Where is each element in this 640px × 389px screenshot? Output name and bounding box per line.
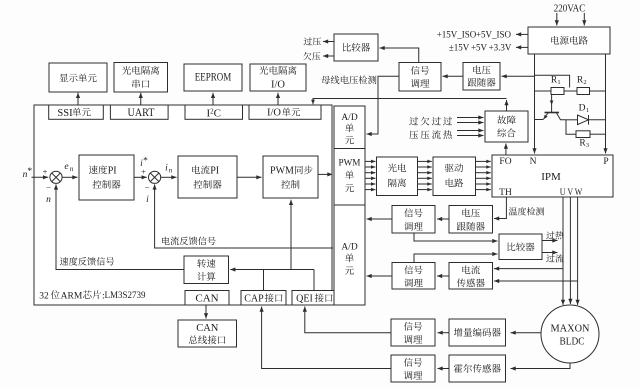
svg-text:A/D: A/D bbox=[341, 113, 358, 123]
svg-text:SSI: SSI bbox=[57, 108, 73, 119]
svg-text:−: − bbox=[145, 182, 150, 192]
svg-text:e: e bbox=[64, 162, 68, 172]
svg-text:32: 32 bbox=[39, 291, 49, 301]
svg-text:+3.3V: +3.3V bbox=[489, 43, 512, 53]
svg-text:U V W: U V W bbox=[560, 188, 583, 198]
svg-text:*: * bbox=[143, 156, 148, 166]
svg-text:n: n bbox=[70, 165, 74, 173]
svg-text:CAN: CAN bbox=[196, 323, 219, 334]
svg-text:IPM: IPM bbox=[541, 171, 561, 183]
svg-text:n: n bbox=[46, 195, 51, 205]
svg-text:−: − bbox=[46, 182, 51, 192]
svg-text:MAXON: MAXON bbox=[551, 324, 590, 335]
svg-text:+: + bbox=[141, 166, 146, 176]
svg-text:P: P bbox=[603, 157, 608, 167]
svg-text:+5V_ISO: +5V_ISO bbox=[476, 30, 512, 40]
svg-text:TH: TH bbox=[499, 188, 512, 198]
svg-text:3: 3 bbox=[586, 142, 589, 149]
svg-text:A/D: A/D bbox=[341, 242, 358, 252]
svg-text:ARM: ARM bbox=[61, 291, 83, 301]
svg-text:QEI: QEI bbox=[296, 293, 313, 304]
svg-text:PWM: PWM bbox=[339, 158, 361, 168]
svg-text:UART: UART bbox=[128, 107, 155, 119]
svg-text:i: i bbox=[165, 163, 168, 173]
svg-text:PI: PI bbox=[108, 166, 117, 177]
svg-text:1: 1 bbox=[586, 107, 589, 114]
svg-text:N: N bbox=[530, 157, 537, 167]
svg-text:+: + bbox=[43, 166, 48, 176]
svg-text:+15V_ISO: +15V_ISO bbox=[437, 30, 477, 40]
svg-text:D: D bbox=[579, 103, 586, 113]
svg-text:PWM: PWM bbox=[270, 166, 294, 177]
svg-text:+5V: +5V bbox=[471, 43, 488, 53]
svg-text:2: 2 bbox=[583, 79, 586, 86]
svg-text:BLDC: BLDC bbox=[560, 336, 585, 347]
svg-text:EEPROM: EEPROM bbox=[195, 72, 232, 84]
svg-text:PI: PI bbox=[210, 166, 219, 177]
svg-text:LM3S2739: LM3S2739 bbox=[104, 290, 146, 300]
svg-text:1: 1 bbox=[557, 79, 560, 86]
svg-text:i: i bbox=[146, 195, 149, 205]
svg-text:FO: FO bbox=[499, 157, 511, 167]
svg-text:I/O: I/O bbox=[267, 108, 281, 119]
svg-text:±15V: ±15V bbox=[449, 43, 470, 53]
svg-text:*: * bbox=[27, 167, 32, 177]
svg-text:CAN: CAN bbox=[195, 293, 218, 305]
svg-text:I/O: I/O bbox=[271, 80, 285, 91]
svg-text:CAP: CAP bbox=[244, 293, 264, 304]
svg-text:n: n bbox=[169, 166, 173, 174]
svg-text:I2C: I2C bbox=[206, 107, 221, 119]
svg-text:220VAC: 220VAC bbox=[554, 3, 586, 15]
